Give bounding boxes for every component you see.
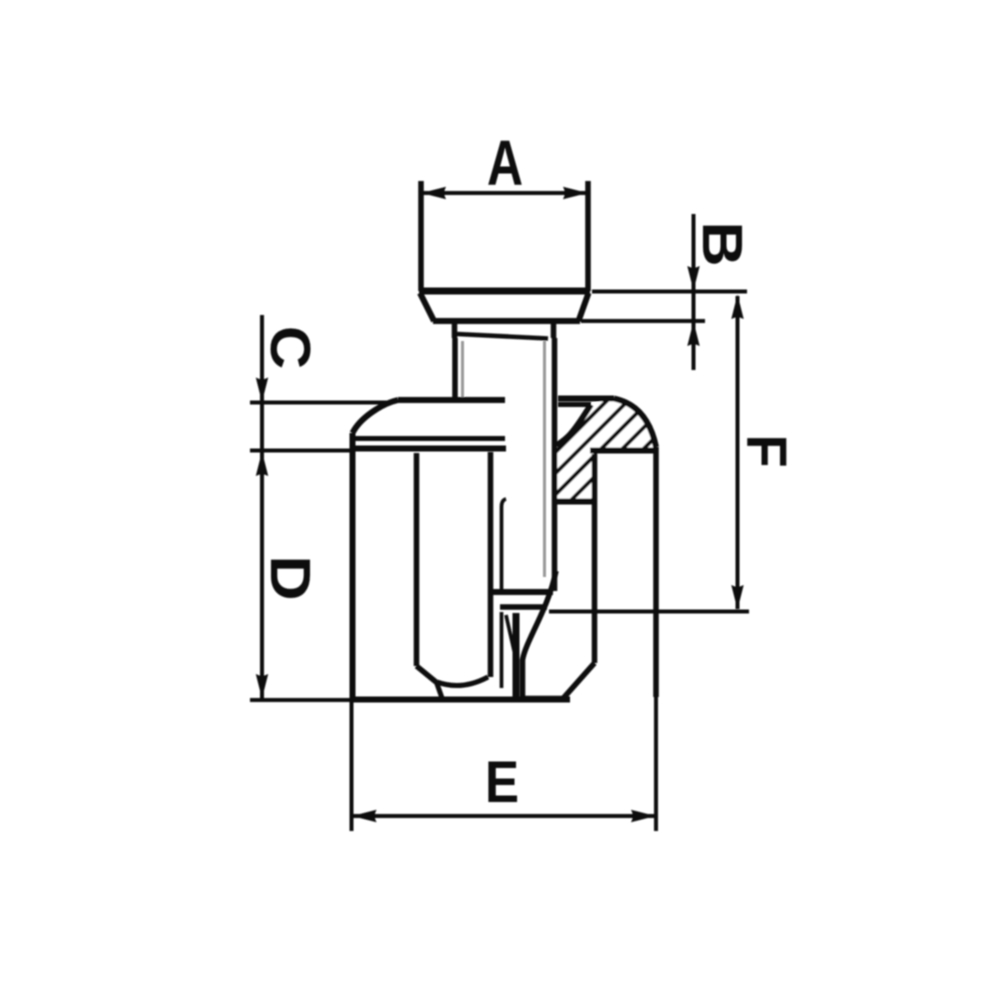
svg-text:C: C: [258, 326, 321, 369]
svg-text:B: B: [691, 221, 755, 266]
svg-text:E: E: [485, 750, 519, 815]
svg-text:A: A: [487, 128, 523, 199]
svg-text:F: F: [735, 434, 799, 467]
svg-text:D: D: [259, 555, 323, 600]
